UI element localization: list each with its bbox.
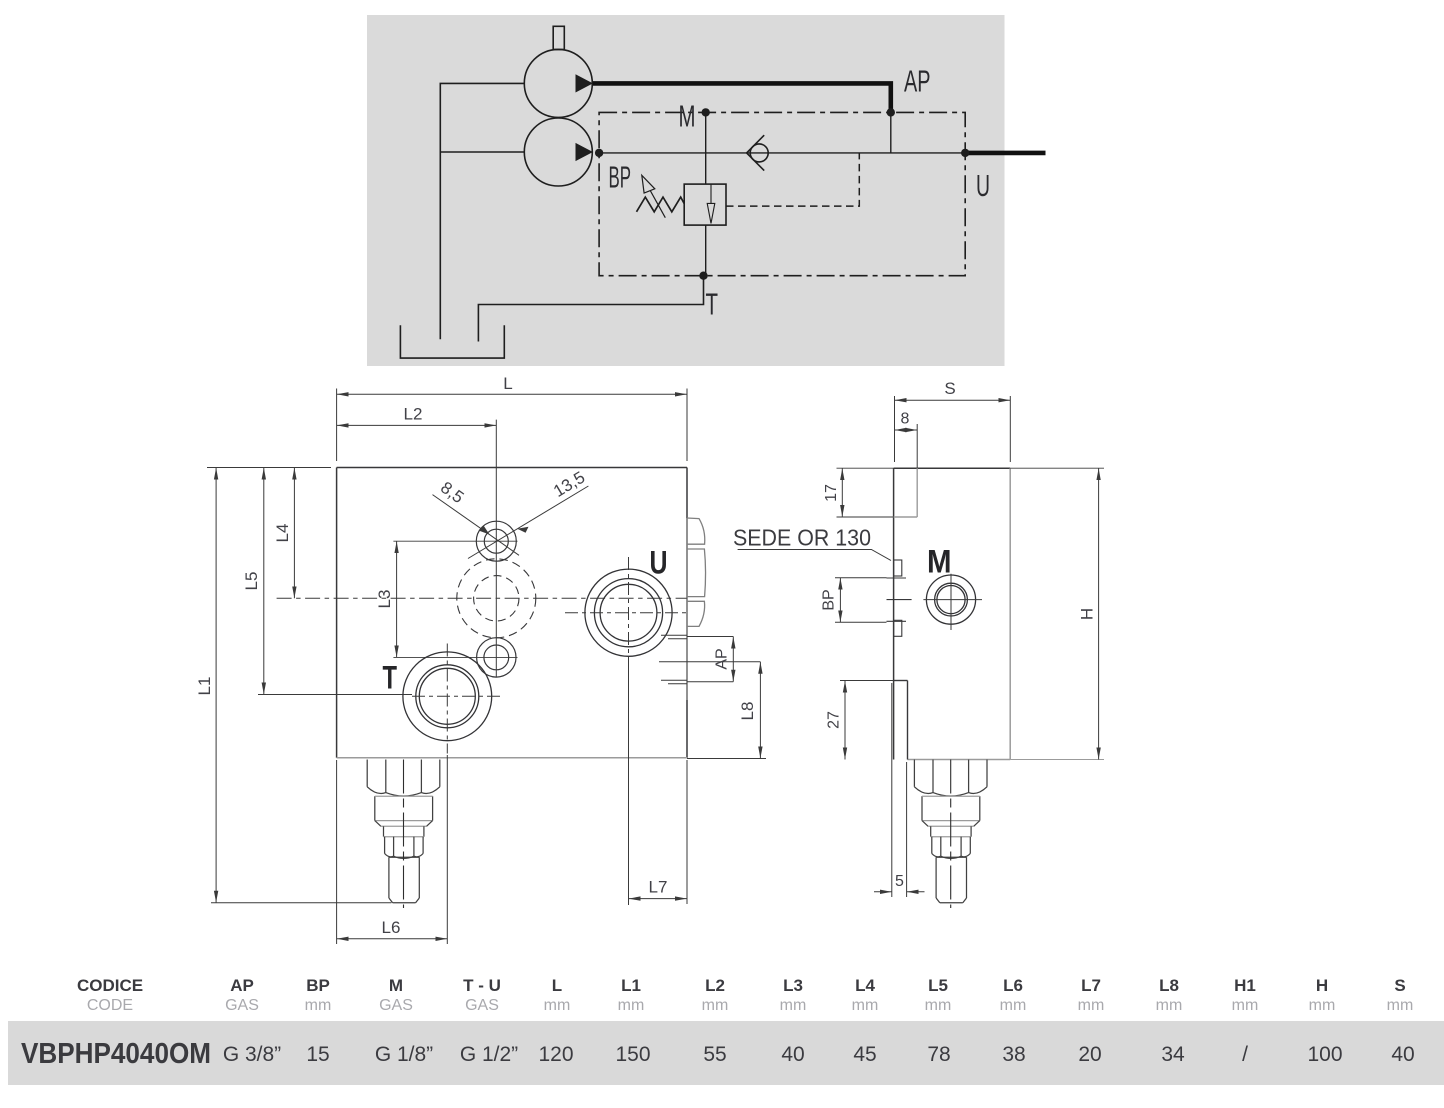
svg-text:BP: BP [609,160,632,195]
svg-text:BP: BP [306,976,330,995]
svg-text:L8: L8 [1159,976,1179,995]
svg-text:L4: L4 [273,524,292,543]
svg-text:T - U: T - U [463,976,501,995]
wire main BP line from P2 to U [599,152,965,154]
relief valve V1 internal arrow [707,184,715,223]
svg-text:AP: AP [714,648,731,669]
svg-text:15: 15 [306,1043,329,1066]
svg-text:8: 8 [901,411,910,428]
wire M branch vertical lower to T [705,225,707,276]
top notch (8x17) [916,468,918,517]
svg-text:G 3/8”: G 3/8” [223,1043,281,1066]
stud [389,856,419,858]
relief adjuster stack (side view) [914,760,987,903]
svg-text:8,5: 8,5 [437,478,467,507]
svg-text:mm: mm [1309,997,1336,1014]
dimension L6 [337,755,448,944]
dimension AP [732,637,734,682]
svg-text:40: 40 [781,1043,804,1066]
svg-text:AP: AP [230,976,254,995]
svg-text:5: 5 [895,873,904,890]
svg-text:L2: L2 [705,976,725,995]
table column headers [225,976,1413,1014]
svg-text:/: / [1242,1043,1248,1066]
svg-text:L6: L6 [1003,976,1023,995]
svg-text:mm: mm [925,997,952,1014]
svg-text:100: 100 [1307,1043,1342,1066]
svg-text:mm: mm [544,997,571,1014]
port M circles [926,575,975,624]
svg-text:VBPHP4040OM: VBPHP4040OM [21,1038,211,1070]
adjuster centre line (side) [950,760,952,909]
relief valve V1 spring [637,197,685,212]
wire thick AP delivery line [593,83,891,111]
svg-text:U: U [650,545,668,581]
node BP inlet junction dot [595,149,603,157]
svg-text:T: T [706,287,719,322]
svg-text:GAS: GAS [465,997,499,1014]
svg-text:L1: L1 [621,976,641,995]
check valve CV1 [747,135,769,170]
relief valve V1 adjustment arrow [643,178,665,218]
svg-text:mm: mm [1078,997,1105,1014]
bottom-left step (5x27) [894,680,908,682]
svg-text:M: M [927,544,952,580]
dimension L8 [759,662,761,759]
step ring [383,826,385,836]
wire thick U outlet line [965,151,1045,156]
svg-text:AP: AP [904,64,931,99]
svg-text:78: 78 [927,1043,950,1066]
svg-text:mm: mm [780,997,807,1014]
svg-text:BP: BP [821,589,838,610]
svg-text:CODICE: CODICE [77,976,143,995]
svg-text:L8: L8 [738,702,757,721]
dimension L5 [258,468,412,695]
dimension L1 [207,468,391,903]
svg-text:38: 38 [1002,1043,1025,1066]
dimension L2 [337,420,497,678]
svg-text:CODE: CODE [87,997,133,1014]
svg-text:L: L [503,374,512,393]
adjuster centre line (front) [403,760,405,909]
svg-text:T: T [383,660,398,696]
pump P2 (bottom) circle [524,118,592,186]
suction line pump P2 [440,151,524,153]
svg-text:mm: mm [305,997,332,1014]
dimension 17 [837,468,894,517]
big hex [366,760,368,787]
svg-text:mm: mm [1232,997,1259,1014]
dimension S [895,396,1011,462]
wire AP branch down to main line [890,112,892,152]
port U extension to L7 [628,667,630,905]
svg-text:L7: L7 [649,878,668,897]
svg-text:M: M [679,99,696,134]
dimension L3 [396,541,398,657]
dimension 5 [874,683,925,897]
svg-text:55: 55 [703,1043,726,1066]
svg-text:S: S [1394,976,1405,995]
dimension 8 [895,424,918,468]
svg-text:mm: mm [1156,997,1183,1014]
node U junction dot [961,149,969,157]
svg-text:45: 45 [853,1043,876,1066]
svg-text:G 1/8”: G 1/8” [375,1043,433,1066]
relief valve V1 pilot dashed line [726,153,859,206]
block centre dash-dot line [277,597,687,599]
relief adjuster stack (front view) [367,760,440,903]
svg-text:40: 40 [1391,1043,1414,1066]
dimension BP [835,578,887,623]
pump P1 flow triangle [576,74,593,92]
dimension H [1098,468,1100,759]
valve body block (front) [337,468,687,758]
valve envelope dash-dot box [599,112,965,275]
svg-text:L2: L2 [404,405,423,424]
hidden relief cavity dashed circles [457,559,536,638]
O-ring seat tabs on left face [887,560,912,636]
svg-text:L: L [552,976,562,995]
port U crosshair [628,557,630,667]
hex plug on right face [687,518,706,626]
svg-text:L3: L3 [375,590,394,609]
valve body block (side) [894,468,1011,759]
svg-text:mm: mm [702,997,729,1014]
svg-text:27: 27 [826,711,843,729]
dimension L7 [629,760,688,904]
svg-text:GAS: GAS [379,997,413,1014]
wire T return: T node down, left, into tank [478,276,703,342]
leader 8,5 [433,495,520,556]
svg-text:M: M [389,976,403,995]
svg-text:GAS: GAS [225,997,259,1014]
pump P2 flow triangle [576,143,593,161]
svg-text:H: H [1316,976,1328,995]
svg-text:SEDE OR 130: SEDE OR 130 [733,525,871,551]
gauge hole bottom [477,638,516,677]
schematic background panel [367,15,1005,366]
svg-text:L4: L4 [855,976,875,995]
pump P1 shaft [553,26,564,49]
svg-text:L7: L7 [1081,976,1101,995]
svg-text:L5: L5 [242,572,261,591]
svg-text:mm: mm [1387,997,1414,1014]
port T crosshair [446,644,448,754]
svg-text:150: 150 [615,1043,650,1066]
node M junction dot [702,108,710,116]
svg-text:L3: L3 [783,976,803,995]
gauge hole (8,5/13,5) top [476,521,516,561]
table data row band [8,1021,1444,1085]
svg-text:H: H [1078,608,1097,620]
relief valve V1 body [684,184,726,225]
port T circles [403,652,492,741]
svg-text:L6: L6 [382,918,401,937]
svg-text:34: 34 [1161,1043,1185,1066]
small hex [384,837,386,854]
svg-text:mm: mm [1000,997,1027,1014]
tank symbol [400,325,504,358]
svg-text:20: 20 [1078,1043,1101,1066]
dimension 27 [840,681,894,760]
suction line pump P1 [440,83,524,339]
port AP hidden marks on right face [659,635,760,684]
dimension L [337,389,687,462]
node T junction dot [699,272,707,280]
wire M branch vertical upper [705,112,707,184]
svg-text:mm: mm [618,997,645,1014]
svg-text:17: 17 [823,484,840,502]
port M crosshair [923,599,982,601]
dimension L4 [293,468,295,599]
node AP junction dot [887,108,895,116]
svg-text:13,5: 13,5 [550,468,588,501]
pump P1 (top) circle [524,49,592,117]
svg-text:S: S [944,379,955,398]
svg-text:L1: L1 [195,677,214,696]
leader 13,5 [468,486,588,559]
svg-text:U: U [976,168,990,203]
svg-text:H1: H1 [1234,976,1256,995]
svg-text:L5: L5 [928,976,948,995]
port U circles [585,569,672,656]
svg-text:mm: mm [852,997,879,1014]
svg-text:120: 120 [538,1043,573,1066]
svg-text:G 1/2”: G 1/2” [460,1043,518,1066]
locknut [374,796,376,820]
top edge extension lines [837,467,894,469]
